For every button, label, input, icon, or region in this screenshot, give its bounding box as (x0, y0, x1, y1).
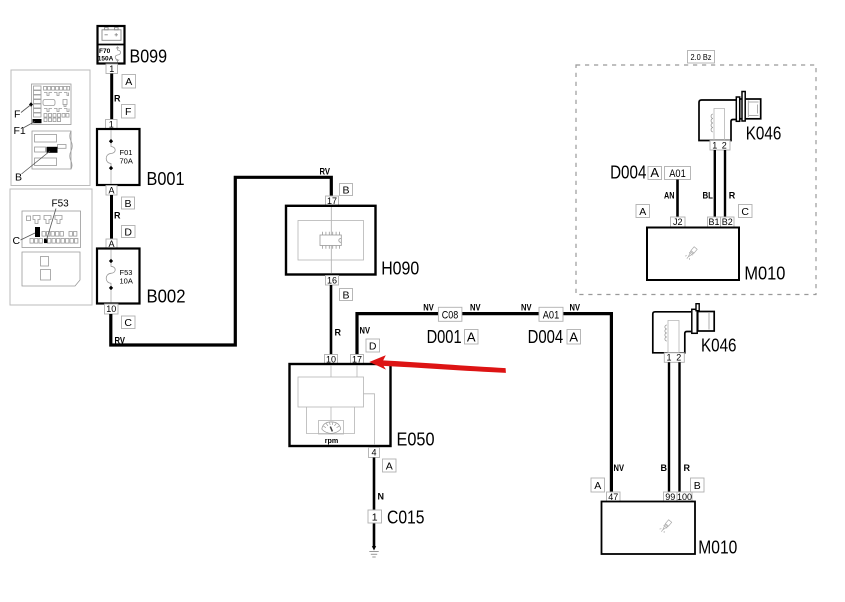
svg-text:A01: A01 (543, 309, 560, 321)
svg-text:2.0 Bz: 2.0 Bz (691, 52, 712, 62)
wire B099 to B001 (R) (110, 74, 113, 120)
svg-text:16: 16 (327, 275, 337, 285)
dashed variant box 2.0 Bz (576, 65, 816, 295)
svg-text:D004: D004 (610, 163, 646, 183)
wire label BL (703, 191, 714, 201)
svg-text:R: R (729, 191, 736, 201)
label H090 (381, 259, 419, 279)
svg-text:1: 1 (712, 140, 717, 150)
label B002 (147, 287, 186, 307)
pin 1 of B099 (106, 64, 118, 74)
wire label NV (570, 303, 581, 313)
connector B at H090 pin 16 (340, 289, 353, 302)
svg-text:99: 99 (665, 492, 675, 502)
svg-text:B: B (124, 198, 131, 210)
svg-text:47: 47 (608, 492, 618, 502)
svg-text:D: D (369, 341, 377, 353)
svg-text:AN: AN (664, 191, 675, 201)
label B099 (130, 47, 168, 67)
svg-text:1: 1 (372, 512, 378, 524)
svg-text:C: C (741, 206, 749, 218)
svg-text:4: 4 (371, 448, 376, 458)
engine M010 (bottom) (602, 502, 696, 555)
svg-text:A: A (569, 329, 578, 344)
ground connector C015 pin 1 (368, 510, 382, 524)
svg-text:D004: D004 (528, 327, 564, 347)
connector D (122, 226, 136, 239)
svg-text:E050: E050 (397, 430, 435, 450)
connector A (383, 459, 397, 473)
svg-text:1: 1 (666, 353, 671, 363)
connector B at H090 pin 17 (340, 184, 353, 197)
wire label N (378, 492, 385, 502)
wire RV from B002 to H090 (111, 177, 331, 345)
connector B (122, 197, 135, 210)
svg-text:A: A (639, 206, 646, 218)
battery B099 (98, 26, 125, 64)
wire label R (335, 328, 342, 338)
label B001 (147, 169, 185, 189)
connector D (366, 339, 380, 353)
label M010 (bottom) (698, 538, 737, 558)
svg-text:RV: RV (320, 167, 331, 177)
svg-text:A01: A01 (669, 168, 686, 180)
svg-text:2: 2 (722, 140, 727, 150)
NV bus wire E050 to M010 (357, 314, 611, 492)
fuse B002 F53 10A (97, 249, 140, 304)
svg-text:D001: D001 (427, 327, 462, 347)
wire R from K046 bottom pin2 (678, 362, 680, 492)
connector F (122, 105, 136, 119)
svg-text:17: 17 (352, 354, 362, 364)
svg-text:17: 17 (327, 196, 337, 206)
wire label R (114, 211, 121, 221)
wire N from E050 to ground (372, 458, 376, 551)
svg-text:A: A (650, 165, 659, 180)
splice A01 (top) (665, 167, 691, 181)
svg-text:B: B (342, 184, 349, 196)
instrument cluster E050 (290, 364, 391, 446)
svg-text:J2: J2 (673, 217, 683, 227)
svg-text:A: A (125, 76, 132, 88)
wire label R (684, 463, 691, 473)
svg-text:10: 10 (106, 304, 116, 314)
label D004 (528, 327, 581, 347)
svg-text:A: A (108, 185, 114, 195)
engine M010 (top) (647, 228, 739, 281)
svg-text:R: R (335, 328, 342, 338)
label K046 (bottom) (701, 336, 737, 356)
svg-text:RV: RV (115, 336, 126, 346)
red highlight arrow (369, 355, 506, 373)
ignition coil K046 (top) (699, 92, 761, 141)
label K046 (top) (746, 124, 782, 144)
svg-text:C: C (13, 235, 21, 247)
svg-text:H090: H090 (381, 259, 419, 279)
svg-text:F1: F1 (14, 125, 26, 137)
pin 100 (677, 492, 692, 502)
connector C (122, 316, 136, 329)
wire label RV (lower) (115, 336, 126, 346)
svg-text:F: F (14, 109, 20, 121)
svg-text:1: 1 (109, 64, 114, 74)
label E050 (397, 430, 435, 450)
svg-text:B: B (342, 289, 349, 301)
wire R from K046 pin2 (724, 150, 726, 217)
svg-text:70A: 70A (120, 157, 133, 166)
pin J2 (671, 217, 686, 227)
pin 47 (607, 492, 621, 502)
wire label R (114, 94, 121, 104)
svg-text:F: F (125, 106, 131, 118)
svg-text:M010: M010 (698, 538, 737, 558)
connector C (M010 top) (739, 205, 753, 219)
pin B2 (721, 217, 735, 227)
splice A01 (539, 307, 563, 321)
svg-text:C015: C015 (387, 508, 425, 528)
svg-text:150A: 150A (98, 56, 114, 63)
svg-text:2: 2 (676, 353, 681, 363)
fuse B001 F01 70A (97, 129, 140, 185)
pins 1 2 of K046 bottom (664, 353, 684, 363)
wire R from H090 to E050 (330, 285, 333, 355)
pin 10 of B002 (105, 304, 119, 314)
svg-text:10A: 10A (120, 276, 133, 285)
svg-text:1: 1 (109, 119, 114, 129)
svg-text:N: N (378, 492, 385, 502)
pin A of B001 (106, 185, 117, 195)
svg-text:NV: NV (614, 463, 625, 473)
pin 1 of B001 (106, 119, 118, 129)
svg-text:B: B (15, 172, 22, 184)
wire label RV (upper) (320, 167, 331, 177)
inset detail box 1 (fusebox location F/F1/B) (11, 70, 90, 186)
svg-text:B2: B2 (722, 217, 733, 227)
pin 17 of H090 (326, 196, 339, 206)
pin 16 of H090 (326, 275, 339, 285)
wire label NV at E050 (360, 326, 371, 336)
svg-text:R: R (114, 94, 121, 104)
ground symbol (369, 552, 378, 558)
svg-text:A: A (594, 480, 601, 492)
pin B1 (708, 217, 721, 227)
label D004 (top) (610, 163, 661, 183)
wire label NV (423, 303, 434, 313)
ECU H090 (286, 206, 376, 275)
svg-text:B001: B001 (147, 169, 185, 189)
svg-text:rpm: rpm (325, 436, 339, 445)
pins 1 2 of K046 top (710, 140, 730, 150)
svg-text:R: R (114, 211, 121, 221)
ignition coil K046 (bottom) (653, 304, 714, 353)
label C015 (387, 508, 425, 528)
connector A (M010 top) (636, 205, 650, 219)
svg-text:C08: C08 (442, 309, 459, 321)
svg-text:B: B (694, 480, 701, 492)
svg-text:B1: B1 (708, 217, 719, 227)
variant label 2.0 Bz (688, 51, 715, 64)
wire label B (661, 463, 668, 473)
svg-text:10: 10 (326, 354, 336, 364)
wire label AN (664, 191, 675, 201)
svg-text:B099: B099 (130, 47, 168, 67)
svg-text:C: C (124, 317, 132, 329)
wire label NV (470, 303, 481, 313)
label D001 (427, 327, 478, 347)
wire B001 to B002 (R) (110, 195, 113, 239)
pin A of B002 (106, 239, 117, 249)
wire BL from K046 pin1 (714, 150, 716, 217)
splice C08 (438, 307, 462, 321)
wire label NV (521, 303, 532, 313)
svg-text:100: 100 (677, 492, 692, 502)
svg-text:B002: B002 (147, 287, 186, 307)
svg-text:A: A (386, 461, 393, 473)
svg-text:NV: NV (360, 326, 371, 336)
svg-text:NV: NV (570, 303, 581, 313)
svg-text:K046: K046 (746, 124, 782, 144)
svg-text:D: D (124, 226, 132, 238)
svg-text:BL: BL (703, 191, 714, 201)
inset detail box 2 (fusebox location F53/C) (10, 189, 92, 305)
connector A (M010 bottom) (591, 478, 605, 492)
svg-text:F53: F53 (52, 199, 70, 210)
connector B (M010 bottom) (691, 478, 705, 492)
label M010 (top) (744, 264, 785, 284)
wire AN from A01 to M010 (676, 180, 679, 218)
svg-text:F70: F70 (99, 48, 111, 55)
pin 17 of E050 (351, 354, 364, 364)
pin 10 of E050 (325, 354, 338, 364)
svg-text:A: A (467, 329, 476, 344)
pin 99 (664, 492, 678, 502)
wire label NV (614, 463, 625, 473)
svg-text:NV: NV (423, 303, 434, 313)
wire label R (729, 191, 736, 201)
wire B from K046 bottom pin1 (668, 362, 670, 492)
svg-text:NV: NV (521, 303, 532, 313)
svg-text:K046: K046 (701, 336, 737, 356)
svg-text:B: B (661, 463, 668, 473)
pin 4 of E050 (369, 448, 380, 458)
svg-text:R: R (684, 463, 691, 473)
svg-text:A: A (108, 239, 114, 249)
svg-text:M010: M010 (744, 264, 785, 284)
connector A (122, 75, 136, 89)
svg-text:NV: NV (470, 303, 481, 313)
